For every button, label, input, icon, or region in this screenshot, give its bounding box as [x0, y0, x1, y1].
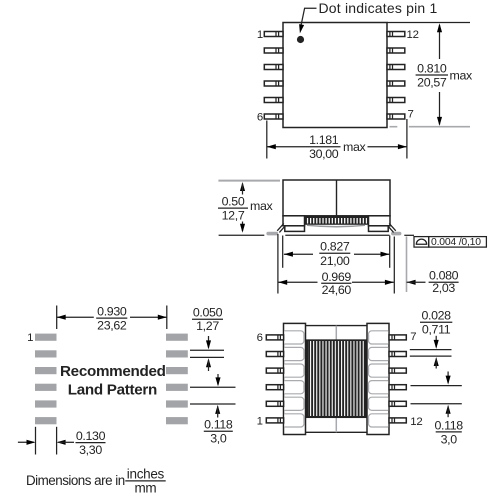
- svg-text:0.810: 0.810: [417, 61, 447, 75]
- svg-text:0.130: 0.130: [76, 429, 106, 443]
- dimension 0.028/0,711 (pin thickness): [410, 309, 453, 369]
- svg-text:3,30: 3,30: [79, 443, 102, 457]
- land pads right column: [166, 334, 188, 425]
- svg-text:inches: inches: [127, 466, 165, 481]
- dimension 0.118/3,0 (pad pitch, land pattern): [190, 374, 236, 446]
- dimension 0.810/20,57 max (package height, top view): [387, 23, 473, 127]
- svg-text:3,0: 3,0: [210, 432, 227, 446]
- title: Recommended Land Pattern: [60, 363, 166, 399]
- package body (side view): [283, 180, 390, 216]
- svg-text:1: 1: [27, 332, 33, 344]
- svg-text:12,7: 12,7: [222, 209, 245, 223]
- dimension 0.930/23,62: [57, 304, 167, 332]
- pin number labels (top view): [257, 29, 419, 124]
- gray edge projection line (right): [406, 237, 408, 293]
- svg-text:Recommended: Recommended: [60, 363, 166, 380]
- seating plane line segments: [219, 234, 414, 236]
- pin number labels (bottom view): [257, 331, 423, 428]
- pins 7-12 (right side, top view): [387, 32, 405, 120]
- svg-text:Dimensions are in: Dimensions are in: [26, 473, 125, 488]
- svg-text:Dot indicates pin 1: Dot indicates pin 1: [319, 0, 438, 16]
- svg-text:1,27: 1,27: [196, 319, 219, 333]
- svg-text:mm: mm: [134, 480, 156, 495]
- svg-text:0,711: 0,711: [422, 322, 451, 336]
- svg-text:12: 12: [410, 416, 422, 428]
- dimension 0.080/2,03 (lead foot): [407, 269, 459, 296]
- svg-text:0.028: 0.028: [421, 309, 451, 323]
- svg-text:max: max: [343, 140, 367, 154]
- dimension 0.827/21,00: [284, 240, 390, 268]
- svg-text:3,0: 3,0: [441, 432, 458, 446]
- svg-text:0.118: 0.118: [204, 418, 233, 432]
- svg-text:6: 6: [257, 332, 263, 344]
- svg-text:20,57: 20,57: [417, 75, 447, 89]
- left lead (gull wing): [268, 223, 285, 233]
- svg-text:1.181: 1.181: [309, 133, 339, 147]
- bobbin top and bottom edges: [306, 326, 368, 433]
- extension lines below side view: [278, 234, 394, 294]
- svg-text:12: 12: [407, 29, 419, 41]
- winding (hatched, bottom view): [306, 340, 366, 417]
- pins 6-1 (left side, bottom view): [266, 335, 283, 423]
- svg-text:0.827: 0.827: [320, 240, 350, 254]
- dimension 0.118/3,0 (pin pitch, bottom view): [411, 372, 464, 447]
- svg-text:1: 1: [257, 29, 263, 41]
- right lead (gull wing): [387, 223, 399, 233]
- winding (hatched, side view): [305, 216, 369, 227]
- svg-text:0.050: 0.050: [193, 306, 223, 320]
- core right flange (bottom view): [367, 323, 389, 434]
- dimension 1.181/30,00 max (package width, top view): [267, 119, 407, 161]
- pins 7-12 (right side, bottom view): [389, 335, 406, 423]
- svg-text:7: 7: [408, 109, 414, 121]
- svg-text:0.004 /0,10: 0.004 /0,10: [431, 237, 481, 248]
- pad 1 label: [27, 332, 33, 344]
- svg-text:1: 1: [257, 415, 263, 427]
- base blocks under body: [283, 216, 390, 232]
- dimension 0.969/24,60: [278, 270, 394, 297]
- flange recesses (left): [284, 331, 304, 427]
- svg-text:0.118: 0.118: [435, 418, 464, 432]
- dimension 0.50/12,7 max (height, side view): [218, 182, 274, 233]
- svg-text:6: 6: [257, 111, 263, 123]
- svg-text:24,60: 24,60: [322, 283, 352, 297]
- note: Dimensions are in inches/mm: [26, 466, 166, 495]
- svg-text:0.930: 0.930: [97, 304, 127, 318]
- svg-text:max: max: [450, 69, 474, 83]
- svg-text:7: 7: [410, 331, 416, 343]
- flange recesses (right): [368, 331, 388, 427]
- top reference line (gray): [218, 180, 280, 182]
- leader: Dot indicates pin 1: [297, 0, 437, 34]
- pin 1 indicator dot: [297, 36, 304, 43]
- svg-text:0.969: 0.969: [322, 270, 352, 284]
- svg-text:21,00: 21,00: [320, 254, 350, 268]
- pins 1-6 (left side, top view): [264, 32, 283, 120]
- svg-text:0.50: 0.50: [222, 195, 245, 209]
- land pads left column: [35, 334, 57, 425]
- svg-text:30,00: 30,00: [309, 147, 339, 161]
- package body outline (top view): [283, 23, 387, 128]
- core left flange (bottom view): [284, 323, 306, 434]
- dimension 0.130/3,30 (pad width): [18, 427, 106, 457]
- svg-text:Land Pattern: Land Pattern: [68, 381, 157, 398]
- svg-text:max: max: [250, 199, 274, 213]
- svg-text:2,03: 2,03: [432, 281, 455, 295]
- svg-text:23,62: 23,62: [97, 319, 127, 333]
- coplanarity callout box 0.004/0,10: [414, 237, 486, 248]
- dimension 0.050/1,27 (pad height): [190, 306, 224, 371]
